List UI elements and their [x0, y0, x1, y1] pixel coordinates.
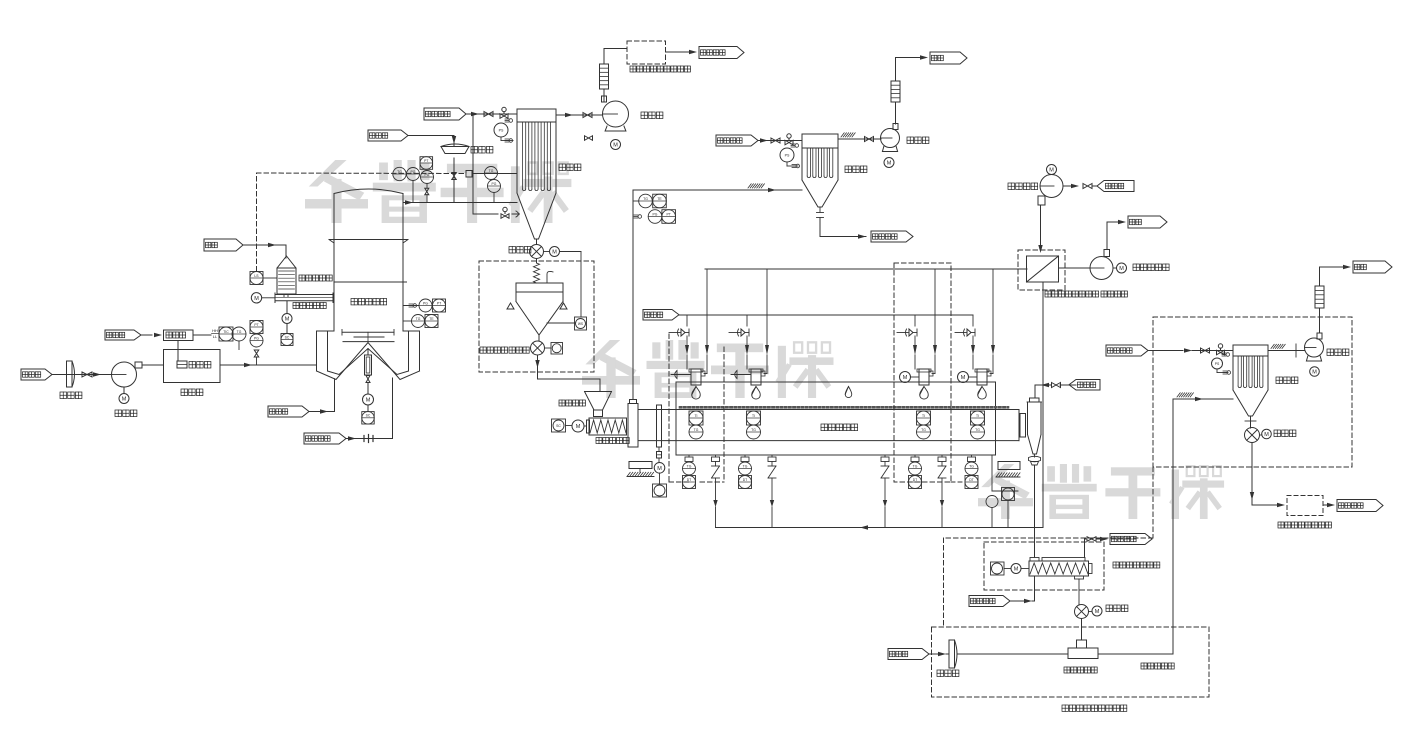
kiln feed chute column: [628, 400, 638, 448]
bag filter 除尘器 (flash dryer): [517, 109, 581, 239]
burner station at x=756: [729, 269, 769, 399]
wire blower to furnace: [142, 364, 164, 366]
discharge station instruments at x=745: [739, 455, 752, 489]
combustion fan 助燃风机: [1008, 175, 1063, 206]
dashed optional box burners left: [669, 334, 724, 482]
instrument LS of tank: [250, 272, 277, 285]
flag vent 排空 (pneumatic): [1320, 261, 1393, 273]
svg-text:PG: PG: [423, 301, 428, 305]
wire raw material down to feed tank: [279, 245, 286, 258]
dryer bottom housing with W cone: [317, 331, 420, 380]
support pedestal feed end: [627, 462, 654, 477]
svg-text:M: M: [1095, 609, 1100, 615]
wire filter dust to feed port: [820, 233, 866, 239]
hot-air furnace 热风炉: [164, 350, 221, 396]
pulse line to hopper: [473, 114, 520, 218]
dryer classifier plates: [342, 330, 394, 342]
flag next process 下道工序 (right): [1323, 500, 1383, 512]
flag coolant outlet 冷媒出口: [1110, 534, 1152, 545]
flue collection duct under kiln: [716, 525, 1044, 529]
flag compressed air 压缩空气 (baghouse 1): [424, 108, 479, 120]
svg-text:TIC: TIC: [223, 330, 229, 334]
flag coolant inlet 冷媒进口: [969, 576, 1035, 607]
cooling screw 冷却螺旋: [1029, 558, 1160, 580]
svg-text:HH: HH: [212, 328, 218, 333]
svg-text:PT: PT: [667, 212, 671, 216]
dashed signal line from dryer area: [257, 173, 467, 271]
flash dryer 闪蒸干燥机 column: [329, 189, 408, 331]
svg-text:M: M: [552, 250, 557, 256]
screw feeder 螺旋加料器 (dryer): [275, 293, 334, 309]
wire dilution air down to duct: [452, 136, 456, 203]
svg-text:SC: SC: [366, 414, 371, 418]
fan3 silencer coil: [1315, 267, 1324, 333]
instrument pair TG/TE on exhaust: [633, 194, 666, 208]
motor M dryer agitator: [363, 394, 374, 405]
svg-text:TI: TI: [752, 414, 755, 418]
induced draft fan 引风机 (pneumatic): [1305, 333, 1349, 361]
kiln gas manifold: [679, 314, 973, 316]
kiln internal instrument stack 3: [917, 411, 931, 439]
svg-text:SC: SC: [556, 424, 561, 428]
svg-text:DT: DT: [913, 478, 918, 482]
sensor H box: [657, 447, 662, 458]
motor M of fan: [611, 140, 621, 150]
instrument TG at furnace: [232, 327, 246, 350]
svg-text:TG: TG: [913, 464, 918, 468]
damper on dashed line: [466, 171, 517, 178]
wire fan down to heat exchanger: [1038, 205, 1042, 253]
flag vent 排空 (flue): [1128, 216, 1167, 228]
svg-text:M: M: [1014, 567, 1019, 573]
motor M combustion fan: [1047, 165, 1057, 175]
svg-text:TE: TE: [429, 317, 434, 321]
instrument SC at feed end: [653, 473, 667, 497]
coolant outlet line: [1085, 537, 1109, 558]
watermark 3: [978, 464, 1224, 519]
kiln discharge hood: [992, 455, 1018, 491]
svg-text:PS: PS: [785, 154, 790, 158]
instrument SC of kiln screw: [552, 419, 573, 432]
drop lines from instruments to duct: [413, 181, 429, 203]
svg-text:M: M: [122, 397, 127, 403]
svg-text:M: M: [903, 375, 908, 381]
svg-text:DT: DT: [969, 478, 974, 482]
kiln internal instrument stack 4: [971, 411, 985, 439]
coupling symbol on air line: [358, 435, 393, 443]
flag compressed air 压缩空气 (baghouse 3): [1106, 345, 1192, 356]
svg-text:M: M: [1312, 370, 1317, 376]
svg-text:DT: DT: [743, 478, 748, 482]
svg-text:PG: PG: [492, 182, 497, 186]
flag to feed port 去加料口: [871, 231, 913, 242]
dashed box pneumatic cooling device (optional): [932, 627, 1210, 711]
forced feeding tank 强制喂料罐: [277, 256, 332, 297]
wire compressed air up to cone: [392, 378, 394, 439]
svg-text:M: M: [576, 424, 581, 430]
filter discharge flange: [817, 207, 824, 233]
motor M under screw feeder: [282, 301, 292, 324]
wire controller to instruments: [193, 334, 211, 336]
screw feeder 螺旋加料器 (kiln): [587, 418, 630, 444]
waste heat recovery box 余热回用装置 (dashed): [604, 41, 690, 72]
svg-text:PT: PT: [437, 301, 441, 305]
wire silo discharge to transfer hopper: [535, 355, 600, 392]
flag oil port 加油口: [268, 406, 330, 417]
svg-text:TG: TG: [237, 330, 242, 334]
signal wire valve motor to silo instrument: [560, 252, 582, 318]
wire oil port to cone: [330, 379, 335, 412]
flag natural-air inlet 自然风: [21, 369, 67, 380]
kiln combustion air manifold: [705, 268, 1027, 270]
svg-text:M: M: [366, 398, 371, 404]
HX flue downcomer: [1042, 282, 1044, 528]
svg-text:M: M: [613, 143, 618, 149]
svg-text:TG: TG: [975, 428, 980, 432]
svg-text:M: M: [1264, 432, 1269, 438]
discharge trap at x=885: [881, 455, 889, 528]
svg-text:PS: PS: [499, 129, 504, 133]
svg-text:PG: PG: [653, 212, 658, 216]
valves on pulse line 2: [770, 134, 802, 145]
valve on air line: [82, 372, 92, 377]
bag filter 除尘器 (pneumatic): [1233, 345, 1298, 416]
blower 鼓风机: [112, 362, 143, 417]
flexible connection spring: [534, 259, 540, 284]
pulse controller PS 3: [1212, 353, 1231, 375]
instrument pair PG/PT on exhaust: [634, 210, 676, 224]
rotary valve under silo: [531, 335, 545, 355]
rotary valve 旋转阀 (pneumatic): [1245, 416, 1296, 443]
motor M flue fan: [1113, 263, 1169, 273]
dashed link right box to cooling area: [944, 467, 1154, 627]
svg-text:LS: LS: [254, 274, 259, 278]
kiln discharge spool: [1020, 414, 1026, 438]
svg-text:PG: PG: [254, 336, 259, 340]
flue fan vent line: [1107, 220, 1126, 250]
instrument SC of screw feeder: [281, 324, 293, 346]
flag natural air 自然风 (combustion): [1097, 181, 1134, 192]
svg-text:M: M: [887, 161, 892, 167]
duct filter to fan: [556, 113, 603, 118]
flag natural air 自然风 (cyclone quench): [1069, 380, 1100, 391]
instrument WS of silo: [547, 317, 587, 330]
motor M of blower: [119, 387, 129, 404]
flag vent 排空 (mid): [896, 52, 968, 64]
kiln exhaust duct to mid baghouse: [633, 184, 802, 400]
svg-text:WS: WS: [578, 322, 583, 326]
packaging system 包装系统 (dashed): [1278, 496, 1331, 529]
kiln girth gear teeth: [680, 406, 1008, 409]
filter 过滤器 (air intake): [60, 361, 82, 399]
svg-text:PT: PT: [424, 159, 428, 163]
svg-text:M: M: [1049, 168, 1054, 174]
conveying pipe inlet to filter: [1173, 393, 1233, 401]
instrument pair PG/PT right of dryer: [403, 299, 446, 312]
transition hopper 过渡料仓: [559, 392, 612, 417]
svg-text:TI: TI: [922, 414, 925, 418]
svg-text:TG: TG: [397, 170, 402, 174]
bypass valve symbol: [585, 136, 593, 141]
hood instrument DT boxed: [1002, 488, 1015, 528]
burner station at x=982: [955, 269, 995, 399]
motor M fan2: [884, 158, 894, 168]
instrument TIC (boxed): [219, 327, 233, 341]
induced draft fan 引风机 (kiln): [881, 124, 929, 152]
discharge station instruments at x=915: [909, 455, 922, 489]
dashed optional box burners right: [894, 263, 951, 482]
svg-text:M: M: [254, 296, 259, 302]
flag compressed air 压缩空气 (dryer): [304, 433, 358, 444]
rotary valve 旋转阀 under baghouse: [509, 239, 544, 259]
svg-text:TI: TI: [694, 414, 697, 418]
discharge station instruments right end: [951, 455, 978, 489]
venturi feeder 文丘加料器: [1064, 619, 1098, 674]
motor M rotary valve 3: [1260, 429, 1272, 439]
svg-text:SC: SC: [285, 335, 290, 339]
motor M rotary valve cooling: [1089, 606, 1103, 616]
valves on pulse line 3: [1192, 344, 1233, 355]
svg-text:DT: DT: [687, 478, 692, 482]
svg-text:TG: TG: [416, 317, 421, 321]
wire air to filter: [67, 372, 112, 376]
rotary valve 旋转阀 (cooling): [1075, 579, 1128, 619]
svg-text:PT: PT: [254, 323, 258, 327]
svg-text:M: M: [1119, 266, 1124, 272]
flag natural air 自然风 (pneumatic cooling): [888, 649, 946, 660]
flag next process 下道工序 (top): [666, 47, 745, 59]
watermark 2: [582, 340, 834, 398]
discharge cyclone at kiln end: [1027, 398, 1042, 465]
dryer agitator shaft: [365, 349, 372, 395]
dashed box cooling screw (optional): [984, 542, 1104, 590]
svg-text:LL: LL: [213, 334, 218, 339]
fan2 silencer coil: [891, 58, 900, 125]
dryer outlet duct to dust collector: [403, 200, 517, 204]
instrument pair TG/TE right of dryer: [403, 315, 438, 328]
flag compressed air 压缩空气 (baghouse 2): [716, 135, 770, 146]
controller 控制器: [164, 330, 194, 341]
check valve on dilution line: [452, 173, 457, 180]
wire quench air to cyclone: [1035, 383, 1076, 399]
pulse controller PS: [494, 119, 513, 143]
motor M fan3: [1310, 367, 1320, 377]
cyclone product drop pipe: [1034, 465, 1036, 557]
flag natural-gas 天然气: [105, 330, 162, 340]
pneumatic conveying pipe 气流输送管: [1098, 399, 1174, 669]
motor M of rotary valve: [544, 247, 560, 257]
flue gas fan 烟气引风机: [1059, 250, 1114, 280]
svg-text:PG: PG: [425, 173, 430, 177]
wire controller to burner: [177, 341, 179, 362]
svg-text:TG: TG: [687, 464, 692, 468]
svg-text:TI: TI: [976, 414, 979, 418]
duct filter2 to fan2: [838, 133, 881, 142]
flag raw material 原料: [204, 239, 279, 251]
motor M cooling screw: [1011, 564, 1029, 574]
wire furnace to dryer (hot air duct): [220, 363, 317, 367]
instrument ZS of silo valve: [545, 343, 563, 355]
damper symbol under PG: [254, 350, 259, 365]
svg-text:M: M: [961, 375, 966, 381]
flag natural air dilution 自然风: [368, 130, 454, 141]
instrument SC cooling screw: [991, 562, 1012, 575]
svg-text:TG: TG: [969, 464, 974, 468]
pulse controller PS 2: [780, 144, 800, 168]
discharge trap at x=942: [938, 455, 946, 528]
instrument SC dryer agitator: [362, 405, 374, 424]
svg-text:TG: TG: [751, 428, 756, 432]
valves on pulse air line: [479, 107, 517, 118]
wire to packaging: [1250, 443, 1285, 508]
thermowell at kiln feed end: [657, 405, 662, 447]
svg-text:TG: TG: [489, 169, 494, 173]
support pedestal discharge end: [996, 462, 1020, 478]
weighing silo 称重料仓: [480, 271, 567, 353]
discharge station instruments at x=689: [683, 455, 696, 489]
rotary kiln 回转焙烧炉 body: [638, 382, 1019, 455]
extra flame teardrop middle: [845, 387, 852, 398]
svg-text:TG: TG: [921, 428, 926, 432]
plate heat exchanger 波纹板式换热器 (dashed box): [1018, 250, 1127, 297]
instrument HH/LL: [212, 328, 220, 339]
svg-text:TG: TG: [694, 428, 699, 432]
instrument PT/PG on hot air duct: [250, 321, 263, 348]
watermark 1: [305, 160, 571, 223]
air filter 过滤器 (pneumatic): [937, 640, 959, 677]
instrument pair TG/PG on duct: [485, 167, 501, 203]
dilution air filter 过滤器: [441, 144, 493, 154]
motor M at feed end: [654, 458, 665, 473]
dashed box weighing silo (optional): [479, 261, 594, 372]
hood instrument TG: [986, 496, 998, 528]
dashed box pneumatic collection system: [1153, 317, 1352, 467]
flag natural gas 天然气 (kiln): [643, 310, 679, 321]
svg-text:PS: PS: [1215, 362, 1220, 366]
discharge trap at x=772: [768, 455, 776, 528]
motor M screw feeder left: [251, 293, 275, 303]
combustion fan suction line: [1063, 184, 1097, 189]
kiln internal instrument stack 2: [747, 411, 761, 439]
fan discharge silencer coil: [600, 49, 609, 102]
induced draft fan 引风机 (flash): [602, 96, 663, 131]
svg-text:TG: TG: [743, 464, 748, 468]
bag filter 除尘器 (kiln): [802, 134, 867, 207]
svg-text:TG: TG: [643, 197, 648, 201]
svg-text:TE: TE: [657, 197, 662, 201]
wire filter to venturi feeder: [946, 653, 1068, 655]
discharge trap at x=715: [712, 455, 720, 528]
burner station at x=696: [669, 269, 709, 399]
kiln internal instrument stack 1: [689, 411, 703, 439]
instrument cluster at dryer top TG/PG: [393, 157, 434, 184]
duct filter3 to fan3: [1268, 344, 1305, 357]
motor M of kiln screw feeder: [572, 420, 587, 432]
svg-text:M: M: [657, 466, 662, 472]
burner station at x=924: [897, 269, 937, 399]
svg-text:PG: PG: [411, 170, 416, 174]
svg-text:M: M: [285, 317, 290, 323]
